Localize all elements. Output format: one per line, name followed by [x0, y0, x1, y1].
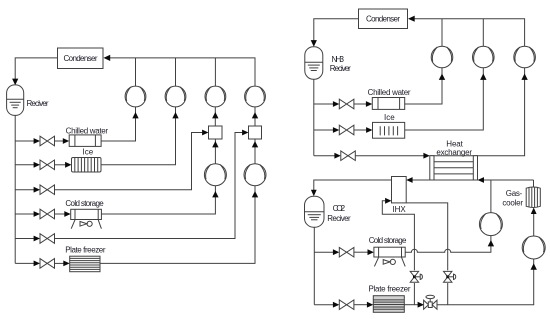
svg-text:Chilled water: Chilled water	[368, 88, 411, 97]
svg-text:exchanger: exchanger	[436, 148, 472, 157]
svg-text:Cold storage: Cold storage	[65, 199, 104, 208]
svg-text:Plate freezer: Plate freezer	[369, 284, 411, 293]
svg-text:Plate freezer: Plate freezer	[65, 246, 106, 255]
svg-text:IHX: IHX	[392, 205, 406, 214]
svg-text:Ice: Ice	[384, 113, 395, 122]
svg-text:Condenser: Condenser	[366, 15, 400, 24]
svg-text:Gas-: Gas-	[506, 189, 523, 198]
svg-text:NH3: NH3	[332, 55, 345, 64]
svg-text:Reciver: Reciver	[330, 64, 351, 73]
svg-text:CO2: CO2	[333, 204, 346, 213]
svg-text:Reciver: Reciver	[327, 214, 351, 223]
svg-text:Ice: Ice	[83, 148, 94, 157]
svg-text:Condenser: Condenser	[64, 54, 98, 63]
svg-text:Cold storage: Cold storage	[369, 236, 407, 245]
svg-text:Chilled water: Chilled water	[66, 127, 109, 136]
svg-text:Reciver: Reciver	[27, 99, 49, 108]
svg-text:cooler: cooler	[502, 198, 523, 207]
